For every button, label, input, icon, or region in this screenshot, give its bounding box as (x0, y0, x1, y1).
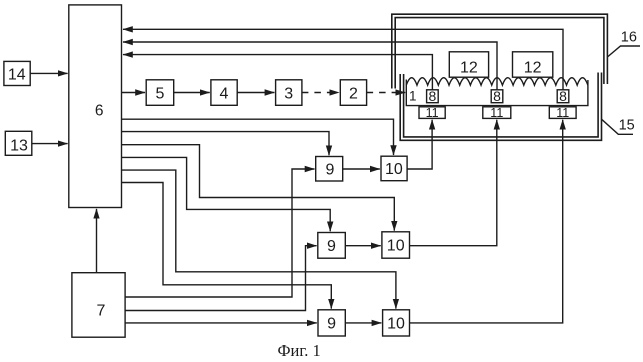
svg-text:11: 11 (426, 106, 439, 120)
svg-text:11: 11 (556, 106, 569, 120)
wire 6 to 5 (122, 92, 146, 94)
wire 10#2 to 11#2 (410, 120, 497, 246)
wire 5 to 4 (174, 92, 210, 94)
box 2 (340, 80, 366, 106)
svg-text:8: 8 (429, 88, 437, 104)
wire 3 to 2 dashed (302, 92, 339, 94)
wire 14 to 6 (30, 72, 67, 74)
wire 10#3 to 11#3 (410, 120, 563, 323)
box 12 #2 (513, 52, 553, 77)
svg-text:8: 8 (559, 88, 567, 104)
wire 6 to 10#1 top (122, 119, 394, 155)
wire 4 to 3 (237, 92, 274, 94)
regulator box 9 #1 (316, 157, 343, 182)
heater box 11 #3 (549, 106, 576, 120)
wire sensor 8#3 to 6 (123, 29, 563, 90)
box 12 #1 (449, 52, 488, 77)
svg-text:10: 10 (387, 238, 405, 255)
vessel 1 melt bath wavy surface (406, 78, 588, 106)
wire 9#2 to 10#2 (345, 245, 380, 247)
wire 10#1 to 11#1 (407, 120, 432, 169)
box 6 (control unit) (69, 5, 122, 208)
sensor box 8 #2 (491, 88, 503, 104)
label 15 leader (602, 118, 635, 135)
container 15 double line U (400, 73, 601, 141)
wire 2 to vessel 1 dashed (367, 92, 406, 94)
svg-text:3: 3 (284, 85, 293, 102)
heater box 11 #2 (483, 106, 511, 120)
svg-text:8: 8 (493, 88, 501, 104)
svg-text:9: 9 (327, 238, 336, 255)
box 3 (276, 80, 302, 106)
box 13 (5, 131, 32, 155)
wire 6 to 9#3 top (122, 183, 332, 309)
wire 6 to 10#2 top (122, 145, 395, 231)
wire 6 to 9#2 top (122, 157, 331, 231)
wire sensor 8#2 to 6 (123, 42, 497, 90)
svg-text:10: 10 (387, 315, 405, 332)
power box 10 #2 (382, 232, 410, 258)
box 4 (211, 80, 237, 106)
wire 13 to 6 (32, 143, 68, 145)
heater box 11 #1 (419, 106, 445, 120)
power box 10 #3 (383, 310, 410, 336)
box 5 (146, 80, 174, 106)
wire 9#1 to 10#1 (343, 168, 380, 170)
svg-text:6: 6 (95, 103, 104, 120)
svg-text:1: 1 (409, 89, 417, 104)
svg-text:2: 2 (349, 85, 358, 102)
box 14 (4, 61, 30, 85)
svg-text:7: 7 (97, 303, 106, 320)
svg-text:12: 12 (460, 60, 478, 77)
svg-text:9: 9 (327, 315, 336, 332)
wire 9#3 to 10#3 (345, 322, 381, 324)
wire 6 to 9#1 top (122, 132, 330, 156)
power box 10 #1 (381, 156, 407, 181)
svg-text:13: 13 (10, 137, 28, 154)
wire 6 to 10#3 top (122, 170, 396, 309)
regulator box 9 #3 (318, 310, 345, 336)
svg-text:9: 9 (326, 162, 335, 179)
sensor box 8 #3 (557, 88, 569, 104)
svg-text:16: 16 (621, 30, 637, 46)
wire 7 to 6 (96, 209, 98, 273)
shield 16 outer double line (392, 14, 608, 88)
svg-text:11: 11 (490, 106, 503, 120)
svg-text:4: 4 (220, 85, 229, 102)
svg-text:14: 14 (8, 67, 26, 84)
wire 7 to 9#1 left (125, 169, 314, 297)
svg-text:5: 5 (156, 85, 165, 102)
wire sensor 8#1 to 6 (123, 55, 432, 90)
sensor box 8 #1 (427, 88, 439, 104)
label 16 leader (607, 30, 640, 58)
wire 7 to 9#2 left (125, 246, 317, 311)
box 7 (programmer) (72, 273, 125, 338)
svg-text:12: 12 (524, 60, 542, 77)
regulator box 9 #2 (318, 233, 346, 259)
svg-text:10: 10 (385, 161, 403, 178)
svg-text:15: 15 (619, 118, 635, 134)
svg-text:Фиг. 1: Фиг. 1 (278, 341, 321, 360)
wire 7 to 9#3 left (125, 322, 317, 324)
